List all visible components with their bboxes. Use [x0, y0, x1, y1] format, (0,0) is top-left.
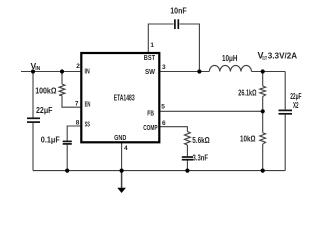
svg-text:7: 7 [75, 101, 79, 108]
svg-text:EN: EN [85, 99, 91, 108]
svg-text:ETA1483: ETA1483 [114, 93, 135, 102]
svg-text:SS: SS [85, 120, 90, 129]
svg-text:26.1kΩ: 26.1kΩ [238, 89, 256, 98]
svg-text:OUT: OUT [262, 56, 267, 62]
svg-text:22μF: 22μF [36, 106, 53, 115]
svg-text:22μF: 22μF [290, 92, 301, 101]
svg-text:10nF: 10nF [170, 7, 187, 16]
svg-text:0.1μF: 0.1μF [41, 136, 60, 145]
svg-text:BST: BST [144, 53, 155, 62]
svg-text:5: 5 [161, 104, 165, 111]
svg-text:GND: GND [114, 133, 127, 142]
svg-text:IN: IN [35, 66, 40, 72]
svg-text:3.3nF: 3.3nF [193, 153, 209, 162]
svg-text:10kΩ: 10kΩ [240, 134, 256, 143]
svg-text:3.3V/2A: 3.3V/2A [268, 51, 297, 61]
svg-text:100kΩ: 100kΩ [35, 86, 56, 95]
svg-text:FB: FB [147, 108, 154, 117]
svg-text:2: 2 [76, 63, 80, 70]
svg-text:SW: SW [145, 67, 156, 76]
svg-text:6: 6 [162, 120, 166, 127]
svg-text:3: 3 [162, 64, 166, 71]
svg-text:10μH: 10μH [222, 54, 238, 63]
svg-text:X2: X2 [293, 101, 299, 110]
svg-text:4: 4 [124, 145, 128, 152]
svg-text:8: 8 [76, 119, 80, 126]
svg-text:5.6kΩ: 5.6kΩ [192, 136, 210, 145]
svg-text:1: 1 [150, 42, 154, 49]
svg-text:IN: IN [85, 67, 90, 76]
svg-text:COMP: COMP [143, 123, 157, 132]
